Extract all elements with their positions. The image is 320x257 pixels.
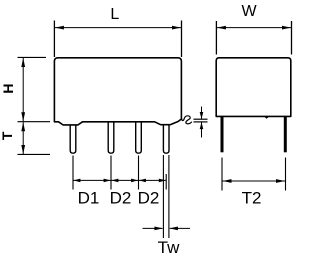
pin 3 center line [138, 156, 140, 190]
dimension D1 arrows [73, 179, 80, 183]
pin 2 center line [110, 156, 112, 190]
svg-text:Tw: Tw [158, 238, 180, 257]
svg-text:T: T [0, 131, 15, 140]
dimension H line [22, 58, 24, 121]
dimension Tw extension line left [162, 155, 164, 238]
dimension T arrow top [21, 122, 25, 131]
dimension H arrow top [21, 58, 25, 67]
relay body front view [54, 58, 181, 125]
dimension H arrow bottom [21, 112, 25, 121]
svg-text:L: L [110, 6, 119, 23]
svg-text:W: W [241, 3, 257, 20]
dimension L line [54, 27, 181, 29]
dimension W arrow right [282, 26, 291, 30]
dimension Tw extension line right [168, 155, 170, 238]
dimension W line [216, 27, 291, 29]
dimension T2 arrow left [223, 179, 232, 183]
dimension W arrow left [217, 26, 226, 30]
side view right leg [284, 116, 287, 152]
dimension T extension line bottom (seating plane) [18, 153, 51, 155]
svg-text:H: H [0, 83, 16, 93]
dimension L extension line left [53, 21, 55, 58]
pin 2 [108, 122, 114, 153]
dimension S lower line [194, 121, 208, 123]
dimension T2 extension line right [285, 158, 287, 191]
dimension S arrow top [201, 107, 203, 120]
pin 3 [136, 122, 142, 153]
pin 4 [163, 125, 169, 154]
dimension L arrow right [172, 26, 181, 30]
pin 1 center line [72, 156, 74, 190]
dimension W extension line right [291, 21, 293, 55]
standoff squiggle at body corner [182, 116, 192, 124]
dimension H extension line top [18, 56, 47, 58]
svg-text:D2: D2 [138, 188, 160, 207]
svg-text:T2: T2 [242, 189, 262, 208]
dimension D2 arrows (second) [139, 179, 146, 183]
side view bottom notch [264, 116, 269, 118]
dimension L arrow left [55, 26, 64, 30]
dimension D line [73, 179, 166, 181]
dimension T2 line [222, 180, 286, 182]
dimension T line [22, 122, 24, 154]
dimension W extension line left [215, 21, 217, 55]
pin 4 center line [165, 174, 167, 190]
dimension T2 extension line left [221, 158, 223, 191]
dimension S arrow bottom [201, 122, 203, 137]
svg-text:D2: D2 [110, 188, 132, 207]
dimension S upper line [194, 118, 208, 120]
dimension T arrow bottom [21, 145, 25, 154]
pin 1 [70, 125, 76, 153]
dimension Tw arrow right [170, 227, 190, 229]
dimension T2 arrow right [276, 179, 285, 183]
relay body side view [216, 58, 291, 117]
svg-text:D1: D1 [78, 188, 100, 207]
side view left leg [221, 116, 224, 152]
dimension L extension line right [181, 21, 183, 58]
dimension D2 arrows (first) [111, 179, 118, 183]
dimension H extension line bottom [18, 121, 51, 123]
dimension Tw arrow left [143, 227, 163, 229]
